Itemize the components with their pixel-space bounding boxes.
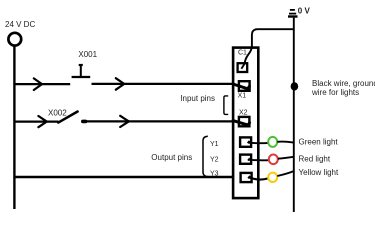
wire entering X1 square xyxy=(233,84,249,89)
wire Y2 to red lamp xyxy=(249,159,270,162)
input pins bracket xyxy=(224,96,228,115)
left supply rail wire xyxy=(13,46,15,209)
svg-text:X2: X2 xyxy=(239,110,248,117)
switch X002 blade xyxy=(58,112,77,123)
0V ground symbol bottom bar xyxy=(288,15,298,17)
svg-text:C1: C1 xyxy=(238,50,247,57)
svg-text:wire for lights: wire for lights xyxy=(311,88,359,97)
rung 2 current arrow left xyxy=(38,116,46,127)
green lamp xyxy=(268,137,277,147)
svg-text:24 V DC: 24 V DC xyxy=(5,20,35,29)
svg-text:Black wire, ground: Black wire, ground xyxy=(312,79,375,88)
junction dot on 0V rail xyxy=(291,82,299,90)
wire from 0V rail to C1 xyxy=(241,29,294,69)
svg-text:X1: X1 xyxy=(238,92,247,99)
svg-text:Yellow light: Yellow light xyxy=(299,168,340,177)
switch X002 fixed contact dot xyxy=(83,120,86,124)
pushbutton X001 contact bar xyxy=(72,76,91,78)
rung 2 wire right segment xyxy=(85,120,235,122)
24V supply terminal circle xyxy=(8,33,21,46)
svg-text:Green light: Green light xyxy=(299,138,339,147)
svg-text:0 V: 0 V xyxy=(298,7,311,16)
rung 2 wire left segment xyxy=(14,120,59,122)
PLC module body xyxy=(233,48,258,199)
0V return rail wire xyxy=(293,18,295,212)
pin X2 terminal square xyxy=(239,117,250,126)
wire Y1 to green lamp xyxy=(249,142,269,145)
svg-text:Y1: Y1 xyxy=(210,141,219,148)
svg-text:Output pins: Output pins xyxy=(151,153,192,162)
svg-text:Input pins: Input pins xyxy=(180,94,215,103)
wire red lamp to 0V rail xyxy=(278,157,294,159)
0V ground symbol top bar xyxy=(290,9,295,11)
pushbutton X001 cap xyxy=(79,64,83,66)
rung 1 current arrow left xyxy=(34,78,42,90)
pin X1 terminal square xyxy=(239,81,250,91)
output pins bracket xyxy=(203,136,208,176)
red lamp xyxy=(269,155,278,165)
yellow lamp xyxy=(268,173,277,182)
rung 1 wire right segment xyxy=(92,83,235,85)
common return wire bottom rung xyxy=(14,176,234,179)
rung 1 current arrow right xyxy=(116,78,124,90)
pin Y2 terminal square xyxy=(240,155,251,164)
pin C1 terminal square xyxy=(238,63,248,72)
svg-text:Y2: Y2 xyxy=(210,157,219,164)
0V ground symbol middle bar xyxy=(289,13,296,15)
wire entering X2 square xyxy=(233,121,250,126)
svg-text:Y3: Y3 xyxy=(210,171,219,178)
rung 1 wire left segment xyxy=(14,83,71,85)
wire Y3 to yellow lamp xyxy=(249,177,268,179)
svg-text:Red light: Red light xyxy=(299,155,331,164)
rung 2 current arrow right xyxy=(120,116,129,127)
wire notch inside Y2 xyxy=(248,158,250,160)
wire notch inside Y1 xyxy=(248,141,250,143)
wire notch inside Y3 xyxy=(248,176,250,179)
pin Y3 terminal square xyxy=(241,173,252,182)
pin Y1 terminal square xyxy=(240,137,251,146)
pushbutton X001 stem xyxy=(80,65,82,77)
wire yellow lamp to 0V rail xyxy=(277,171,293,176)
wire green lamp to 0V rail xyxy=(277,142,293,143)
svg-text:X002: X002 xyxy=(48,108,67,117)
svg-text:X001: X001 xyxy=(78,50,97,59)
